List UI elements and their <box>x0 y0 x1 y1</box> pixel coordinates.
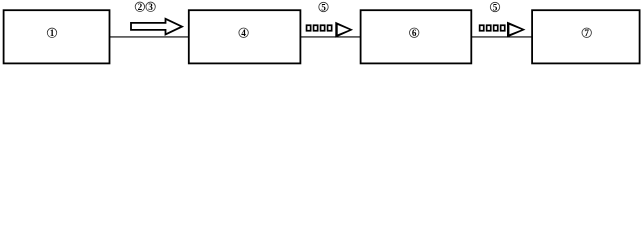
svg-text:4: 4 <box>241 28 246 38</box>
svg-text:5: 5 <box>493 2 498 12</box>
svg-text:1: 1 <box>50 28 55 38</box>
svg-text:7: 7 <box>584 28 589 38</box>
svg-text:6: 6 <box>412 28 417 38</box>
svg-text:5: 5 <box>321 2 326 12</box>
svg-text:3: 3 <box>148 2 153 12</box>
svg-text:2: 2 <box>138 2 143 12</box>
